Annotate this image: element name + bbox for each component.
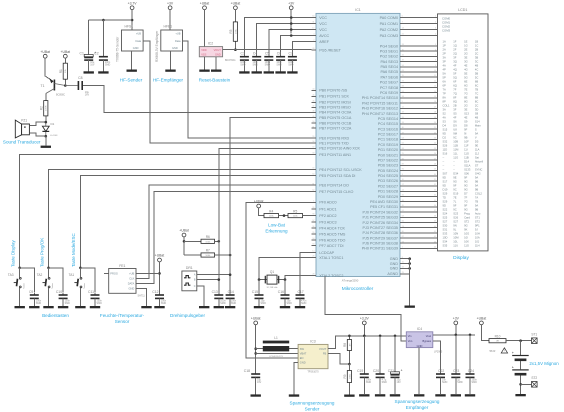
svg-text:7G: 7G — [464, 92, 468, 96]
svg-text:6F: 6F — [453, 80, 456, 84]
svg-text:D19: D19 — [453, 192, 458, 196]
svg-text:GND: GND — [215, 53, 221, 57]
ground C22 — [435, 394, 445, 396]
svg-text:56: 56 — [312, 141, 314, 143]
svg-text:59: 59 — [312, 168, 314, 170]
junction R8 top — [348, 335, 351, 338]
svg-text:3B: 3B — [475, 56, 478, 60]
svg-text:3F: 3F — [453, 108, 456, 112]
push button TA1 — [69, 273, 86, 289]
ground TA1 — [75, 306, 85, 308]
svg-text:11B: 11B — [464, 156, 469, 160]
ground C18 — [251, 394, 261, 396]
svg-text:9A: 9A — [475, 204, 478, 208]
wire rail to IC1 VCC 3 — [291, 29, 311, 31]
svg-text:+UBat: +UBat — [61, 50, 71, 54]
svg-text:PA7 SEG6: PA7 SEG6 — [380, 75, 398, 79]
ground HFS1 — [127, 70, 137, 72]
wire AREF to C7 — [292, 42, 311, 55]
wire TA1 to C11 — [80, 268, 95, 292]
svg-text:9F: 9F — [464, 204, 467, 208]
junction +3.7V rail — [131, 19, 134, 22]
svg-text:10G: 10G — [464, 232, 469, 236]
svg-text:D34: D34 — [453, 172, 458, 176]
svg-text:SMD: SMD — [457, 381, 463, 384]
svg-text:+UB: +UB — [129, 271, 134, 275]
svg-text:Display: Display — [453, 255, 469, 261]
capacitor C19 — [357, 336, 372, 394]
svg-text:C16: C16 — [278, 290, 284, 294]
svg-text:SMD: SMD — [472, 381, 478, 384]
svg-text:3G: 3G — [464, 60, 468, 64]
ground IC3 — [289, 394, 299, 396]
svg-text:VCC: VCC — [319, 16, 327, 20]
svg-text:9B: 9B — [475, 188, 478, 192]
svg-text:GND: GND — [390, 267, 399, 271]
svg-text:S27: S27 — [443, 220, 448, 224]
svg-text:SMD: SMD — [265, 64, 271, 67]
ground C15 — [254, 306, 264, 308]
svg-text:21: 21 — [434, 127, 436, 129]
svg-text:PB5 PCINT5 OC1A: PB5 PCINT5 OC1A — [319, 116, 352, 120]
svg-text:13: 13 — [434, 86, 436, 88]
capacitor C9 — [29, 290, 42, 306]
svg-text:S34: S34 — [443, 240, 448, 244]
terminal +UBat battery — [477, 317, 487, 325]
svg-text:9E: 9E — [453, 176, 456, 180]
svg-text:1G: 1G — [464, 44, 468, 48]
capacitor C17 — [296, 290, 307, 306]
svg-text:17: 17 — [434, 106, 436, 108]
svg-text:S22: S22 — [443, 208, 448, 212]
capacitor C23 — [451, 335, 463, 394]
ground C17 — [295, 306, 305, 308]
svg-text:+UBat: +UBat — [251, 317, 261, 321]
svg-text:4G: 4G — [464, 68, 468, 72]
svg-text:10D: 10D — [443, 236, 448, 240]
svg-text:--: -- — [453, 169, 455, 172]
svg-text:7A: 7A — [443, 88, 446, 92]
capacitor C22 — [436, 341, 448, 394]
svg-text:S: S — [475, 128, 477, 132]
wire FE1 DATA to IC1 PE7 — [136, 192, 312, 284]
svg-text:9F: 9F — [453, 184, 456, 188]
svg-text:G4G: G4G — [475, 172, 481, 176]
svg-text:SYNC: SYNC — [475, 168, 483, 172]
svg-text:D2: D2 — [443, 136, 447, 140]
svg-text:33: 33 — [312, 48, 314, 50]
svg-text:HF-Sender: HF-Sender — [120, 78, 143, 83]
svg-text:TPS61070: TPS61070 — [307, 371, 319, 374]
svg-text:44: 44 — [312, 89, 314, 91]
svg-text:Sat: Sat — [475, 156, 479, 160]
svg-text:41: 41 — [434, 231, 436, 233]
svg-text:SMD: SMD — [240, 64, 246, 67]
svg-text:R5: R5 — [293, 209, 297, 213]
svg-text:8C: 8C — [475, 100, 478, 104]
capacitor C18 — [244, 360, 262, 394]
svg-text:PZ1: PZ1 — [21, 119, 27, 123]
svg-text:TA3: TA3 — [8, 273, 14, 277]
svg-text:9D: 9D — [443, 132, 446, 136]
svg-text:18: 18 — [434, 112, 436, 114]
svg-text:9P1: 9P1 — [475, 224, 480, 228]
svg-text:ST2: ST2 — [475, 220, 480, 224]
svg-text:TX868-75-Sender: TX868-75-Sender — [116, 36, 120, 62]
wire speaker bottom — [29, 133, 45, 136]
svg-text:6B: 6B — [475, 80, 478, 84]
svg-text:S30: S30 — [443, 224, 448, 228]
svg-text:9I: 9I — [464, 132, 466, 136]
svg-text:PB4 PCINT4 OC0A: PB4 PCINT4 OC0A — [319, 111, 352, 115]
svg-text:PC6 SEG9: PC6 SEG9 — [380, 91, 398, 95]
junction R4 R5 — [283, 214, 286, 217]
svg-text:PA3 COM3: PA3 COM3 — [380, 34, 398, 38]
svg-text:PH4 PCINT17 SEG13: PH4 PCINT17 SEG13 — [362, 112, 398, 116]
svg-text:8B: 8B — [475, 96, 478, 100]
svg-text:9C: 9C — [453, 208, 456, 212]
wire rail to IC1 VCC 2 — [291, 23, 311, 25]
svg-text:FB: FB — [323, 352, 327, 356]
rotary encoder DR1 — [182, 266, 197, 291]
svg-text:Taste Display: Taste Display — [11, 239, 16, 267]
junction battery top — [519, 339, 522, 342]
svg-text:VOUT: VOUT — [214, 48, 222, 52]
svg-text:IC4: IC4 — [417, 327, 422, 331]
resistor R9 — [343, 364, 351, 395]
svg-text:PC5 SEG14: PC5 SEG14 — [378, 117, 398, 121]
svg-text:95: 95 — [312, 232, 314, 234]
svg-text:PC0 SEG19: PC0 SEG19 — [378, 143, 398, 147]
svg-text:14: 14 — [312, 251, 314, 253]
terminal +3V out — [453, 317, 460, 325]
svg-text:11: 11 — [434, 75, 436, 77]
svg-text:15: 15 — [434, 96, 436, 98]
svg-text:C19: C19 — [357, 369, 363, 373]
resistor R2 — [40, 94, 48, 123]
svg-text:PG5 /RESET: PG5 /RESET — [319, 48, 341, 52]
svg-text:58: 58 — [312, 153, 314, 155]
ground C16 — [280, 306, 290, 308]
svg-text:7Q: 7Q — [453, 92, 457, 96]
svg-text:16V: 16V — [85, 94, 90, 97]
svg-text:7D: 7D — [443, 196, 446, 200]
svg-text:1M: 1M — [349, 343, 351, 346]
svg-text:S23: S23 — [453, 212, 458, 216]
svg-text:1E: 1E — [464, 40, 467, 44]
svg-text:3D: 3D — [475, 108, 478, 112]
svg-text:9N: 9N — [453, 224, 456, 228]
svg-text:5G: 5G — [464, 76, 468, 80]
svg-text:EN: EN — [300, 356, 304, 360]
wire +UBat FE1 down — [159, 262, 161, 292]
wire +3V to HFE1 — [169, 10, 171, 30]
wire speaker top — [29, 122, 45, 126]
capacitor C11 — [88, 290, 102, 306]
junction rail — [290, 34, 293, 37]
svg-text:D14: D14 — [464, 160, 469, 164]
junction FE1 +UB — [158, 272, 161, 275]
junction rail — [290, 16, 293, 19]
junction DR1 A — [229, 273, 232, 276]
svg-text:11B: 11B — [453, 144, 458, 148]
svg-text:10N: 10N — [453, 232, 458, 236]
svg-text:4C: 4C — [475, 68, 478, 72]
svg-text:7: 7 — [435, 55, 436, 57]
svg-text:Taster: Taster — [83, 283, 86, 289]
svg-text:9E: 9E — [475, 144, 478, 148]
svg-text:5Q: 5Q — [453, 76, 457, 80]
svg-text:R8: R8 — [343, 343, 347, 347]
svg-text:PF7 ADC7 TDI: PF7 ADC7 TDI — [319, 244, 343, 248]
svg-text:11F: 11F — [464, 144, 469, 148]
svg-text:43: 43 — [434, 241, 436, 243]
svg-text:PE4 PCINT12 SCL USCK: PE4 PCINT12 SCL USCK — [319, 168, 362, 172]
svg-text:CLK: CLK — [129, 276, 134, 280]
ground C12 — [154, 306, 164, 308]
svg-text:Data: Data — [175, 39, 181, 43]
junction crystal right — [284, 278, 287, 281]
svg-text:2B: 2B — [453, 104, 456, 108]
wire FE1 GND — [136, 288, 147, 306]
svg-text:10J: 10J — [475, 240, 480, 244]
svg-text:6P: 6P — [443, 84, 446, 88]
wire to C2 — [102, 20, 104, 56]
svg-text:Aktuell: Aktuell — [475, 160, 483, 164]
wire +UBat to IC2 — [204, 10, 206, 47]
svg-text:S14: S14 — [475, 120, 480, 124]
terminal +UBat R6 R7 — [179, 229, 189, 237]
svg-text:31: 31 — [434, 179, 436, 181]
svg-text:R9: R9 — [343, 374, 347, 378]
LCD1 display block — [438, 8, 489, 251]
resistor R8 — [343, 336, 351, 364]
svg-text:Prog: Prog — [464, 212, 470, 216]
svg-text:SMD: SMD — [231, 302, 237, 305]
wire reset line to IC1 PG5 — [223, 49, 312, 51]
junction +3.3V — [363, 335, 366, 338]
svg-text:PF4 ADC4 TCK: PF4 ADC4 TCK — [319, 226, 345, 230]
warning triangle 56R — [490, 348, 508, 353]
terminal +UBat FE1 — [155, 254, 165, 262]
resistor R5 — [288, 209, 303, 217]
svg-text:PA5 SEG4: PA5 SEG4 — [380, 65, 398, 69]
svg-text:100R: 100R — [46, 105, 48, 111]
svg-text:+UBat: +UBat — [179, 229, 189, 233]
svg-text:VBAT: VBAT — [300, 352, 307, 356]
svg-text:S26: S26 — [453, 216, 458, 220]
ground MC — [405, 306, 415, 308]
resistor R1 — [59, 58, 67, 85]
wire VBAT — [256, 352, 298, 354]
resistor R6 — [201, 235, 215, 243]
ground IC2 VSS — [199, 70, 209, 72]
svg-text:PB3 PCINT3 MISO: PB3 PCINT3 MISO — [319, 106, 351, 110]
wire VOUT to rail — [328, 336, 406, 349]
svg-text:9D: 9D — [443, 184, 446, 188]
svg-text:GND: GND — [390, 257, 399, 261]
svg-text:C7: C7 — [289, 52, 293, 56]
junction R7 trunk — [229, 254, 232, 257]
connector ST1 — [531, 333, 537, 344]
svg-text:VCC: VCC — [319, 22, 327, 26]
svg-text:ATmega3290: ATmega3290 — [342, 278, 359, 282]
svg-text:PB6 PCINT6 OC1B: PB6 PCINT6 OC1B — [319, 121, 352, 125]
svg-text:7E: 7E — [464, 88, 467, 92]
svg-text:9G: 9G — [464, 184, 468, 188]
svg-text:Feuchte-/Temperatur-: Feuchte-/Temperatur- — [100, 313, 145, 318]
svg-text:COL2: COL2 — [475, 192, 483, 196]
wire DR1 C to ground — [197, 286, 204, 306]
ground C23 — [451, 394, 461, 396]
svg-text:PE4 AVD SEG30: PE4 AVD SEG30 — [370, 200, 398, 204]
svg-text:S11A: S11A — [464, 164, 471, 168]
ground C3 — [239, 71, 249, 73]
junction rail — [290, 28, 293, 31]
svg-text:11G: 11G — [453, 156, 458, 160]
svg-text:PH1 PCINT14 SEG10: PH1 PCINT14 SEG10 — [362, 96, 398, 100]
HF module HFE1 RX868-3V — [155, 25, 183, 62]
wire XTAL2 — [285, 276, 312, 280]
ground HFE1 — [165, 70, 175, 72]
svg-text:PE3 PCINT11 AIN1: PE3 PCINT11 AIN1 — [319, 153, 351, 157]
svg-text:HF-Empfänger: HF-Empfänger — [153, 78, 184, 83]
wire +UBat R6R7 down — [183, 237, 185, 255]
svg-text:5F: 5F — [453, 72, 456, 76]
svg-text:GND: GND — [133, 46, 139, 50]
LDO IC4 LP2985 — [406, 327, 443, 354]
ground C7 — [287, 71, 297, 73]
svg-text:4: 4 — [435, 34, 436, 36]
svg-text:+UB: +UB — [175, 32, 180, 36]
capacitor C20 — [373, 336, 387, 394]
svg-text:12: 12 — [434, 80, 436, 82]
svg-text:S06: S06 — [464, 172, 469, 176]
svg-text:ST2: ST2 — [464, 220, 469, 224]
svg-text:8Q: 8Q — [453, 100, 457, 104]
svg-text:Taster: Taster — [22, 283, 25, 289]
svg-text:Drehimpulsgeber: Drehimpulsgeber — [170, 313, 205, 318]
svg-text:19: 19 — [434, 117, 436, 119]
svg-text:Mikrocontroller: Mikrocontroller — [342, 286, 374, 292]
svg-text:56 R: 56 R — [490, 349, 496, 353]
svg-text:--: -- — [443, 165, 445, 168]
svg-text:PD6 SEG23: PD6 SEG23 — [378, 164, 398, 168]
junction C21 — [394, 335, 397, 338]
svg-text:PD2 SEG27: PD2 SEG27 — [378, 184, 398, 188]
wire HFE1 GND — [170, 51, 172, 70]
svg-text:--: -- — [453, 165, 455, 168]
IC1 left pins — [312, 16, 363, 278]
svg-text:9G: 9G — [464, 224, 468, 228]
svg-text:Sound Transducer: Sound Transducer — [3, 140, 41, 145]
svg-text:6A: 6A — [443, 80, 446, 84]
svg-text:7P: 7P — [443, 92, 446, 96]
svg-text:PF6 ADC6 TDO: PF6 ADC6 TDO — [319, 238, 345, 242]
svg-text:C6: C6 — [277, 52, 281, 56]
wire R5 to IC1 PF2 — [303, 215, 312, 217]
svg-text:SMD: SMD — [382, 381, 388, 384]
ground battery — [515, 394, 525, 396]
wire LCDCAP to C17 — [300, 253, 312, 294]
svg-text:8G: 8G — [464, 100, 468, 104]
wire +3.3V to rail — [363, 325, 365, 336]
svg-text:C14: C14 — [228, 290, 234, 294]
svg-text:4B: 4B — [475, 64, 478, 68]
svg-text:PG2 SEG7: PG2 SEG7 — [380, 81, 398, 85]
svg-text:16V: 16V — [90, 64, 95, 67]
svg-text:PG2 SEG2: PG2 SEG2 — [380, 55, 398, 59]
junction +3V — [455, 334, 458, 337]
wire IC4 Vout rail — [433, 334, 475, 336]
svg-text:PJ6 PCINT30 SEG38: PJ6 PCINT30 SEG38 — [363, 242, 398, 246]
terminal +UBat LowBat — [254, 200, 264, 208]
capacitor C5 — [264, 50, 273, 71]
svg-text:R2: R2 — [40, 106, 44, 110]
svg-text:PA6 SEG5: PA6 SEG5 — [380, 70, 398, 74]
svg-text:--: -- — [443, 161, 445, 164]
svg-text:9B: 9B — [475, 180, 478, 184]
svg-text:COM3: COM3 — [442, 29, 451, 33]
IC1 right pin labels — [362, 16, 404, 277]
svg-text:7L: 7L — [453, 200, 456, 204]
svg-text:10: 10 — [434, 70, 436, 72]
svg-text:5B: 5B — [475, 72, 478, 76]
wire EN from IC1 PF0 — [246, 202, 312, 358]
svg-text:S13: S13 — [464, 112, 469, 116]
svg-text:9G: 9G — [453, 180, 457, 184]
resistor R4 — [264, 209, 279, 217]
svg-text:PA1 COM1: PA1 COM1 — [380, 22, 398, 26]
diode D1 LL4148 — [42, 122, 58, 137]
capacitor C12 — [152, 290, 167, 306]
svg-text:Von: Von — [408, 339, 413, 343]
svg-text:11H: 11H — [475, 244, 480, 248]
svg-text:PJ2 PCINT26 SEG34: PJ2 PCINT26 SEG34 — [363, 221, 398, 225]
sensor FE1 SHT11 — [109, 264, 146, 298]
svg-text:4E: 4E — [464, 64, 467, 68]
speaker PZ1 sound transducer — [15, 119, 29, 138]
svg-text:2: 2 — [313, 40, 314, 42]
wire TA3 top — [19, 268, 21, 278]
svg-text:3A: 3A — [443, 108, 446, 112]
ground C11 — [90, 306, 100, 308]
svg-text:7E: 7E — [453, 196, 456, 200]
svg-text:PF1 ADC1: PF1 ADC1 — [319, 207, 336, 211]
wire FB — [328, 353, 349, 364]
svg-text:PF0 ADC0: PF0 ADC0 — [319, 201, 336, 205]
svg-text:8F: 8F — [453, 96, 456, 100]
svg-text:Spannungserzeugung: Spannungserzeugung — [395, 399, 440, 404]
svg-text:PROG: PROG — [110, 271, 118, 275]
svg-text:9G: 9G — [464, 180, 468, 184]
svg-text:2G: 2G — [464, 104, 468, 108]
svg-text:S07: S07 — [443, 172, 448, 176]
svg-text:Taste Mode/ESC: Taste Mode/ESC — [71, 232, 76, 267]
svg-text:D1: D1 — [51, 122, 55, 126]
junction FB node — [348, 363, 351, 366]
wires IC1 to LCD1 — [400, 16, 438, 249]
wire to battery — [520, 341, 522, 355]
ground DR1 — [199, 306, 209, 308]
svg-text:PG3 SEG1: PG3 SEG1 — [380, 50, 398, 54]
terminal +UBat T1 collector — [40, 50, 50, 58]
svg-text:30: 30 — [434, 174, 436, 176]
svg-text:+UB: +UB — [136, 32, 141, 36]
svg-text:R10: R10 — [495, 334, 501, 338]
svg-text:+UBat: +UBat — [200, 1, 210, 5]
svg-text:PE6 PCINT14 DO: PE6 PCINT14 DO — [319, 184, 349, 188]
